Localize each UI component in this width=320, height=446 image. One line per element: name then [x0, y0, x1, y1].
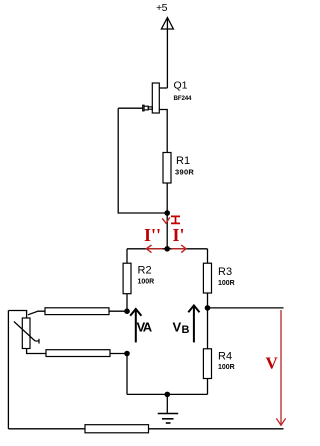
- trimmer wiper arrow: [14, 322, 39, 344]
- svg-text:R2: R2: [138, 265, 152, 277]
- svg-text:R3: R3: [218, 266, 232, 278]
- svg-text:+5: +5: [156, 2, 168, 14]
- wire: trimmer bottom to gauge2: [27, 349, 46, 354]
- wire: power to drain: [166, 18, 168, 88]
- node VB: [205, 305, 211, 311]
- wire: ground rail horizontal: [127, 393, 208, 395]
- svg-text:390R: 390R: [175, 167, 194, 176]
- node bridge top junction: [164, 246, 170, 252]
- node junction (gate feedback tap): [164, 210, 170, 216]
- wire: left rail: [7, 311, 9, 429]
- resistor R3: [203, 263, 211, 293]
- wire: left rail top: [8, 311, 26, 319]
- svg-text:100R: 100R: [218, 364, 235, 371]
- svg-text:V: V: [173, 320, 182, 335]
- wire: bottom node down to ground rail: [126, 354, 128, 395]
- wire: top rail to R3: [207, 249, 209, 263]
- arrow VA: [130, 309, 141, 342]
- wire: R1 bottom to bridge top: [166, 183, 168, 249]
- strain gauge (bottom): [46, 350, 110, 357]
- node gauge bottom: [124, 351, 130, 357]
- voltage arrow V (red): [276, 310, 285, 425]
- arrow VB: [188, 305, 199, 342]
- wire: feedback to gate: [118, 108, 167, 213]
- ground: [158, 394, 179, 423]
- svg-text:R1: R1: [176, 155, 190, 167]
- wire: source stub down to R1: [159, 110, 167, 153]
- wire: VB node to R4: [207, 308, 209, 349]
- wire: gauge to trimmer top (slant): [28, 311, 45, 315]
- svg-text:R4: R4: [218, 351, 232, 363]
- wire: R3 bottom to VB node: [207, 293, 209, 308]
- wire: VA node to gauge: [109, 310, 127, 312]
- wire: drain stub: [159, 87, 167, 89]
- transistor Q1 gate arrow: [143, 105, 153, 111]
- bottom resistor (gauge lead): [85, 425, 149, 433]
- wire: top rail to R2: [126, 249, 128, 263]
- svg-text:100R: 100R: [138, 279, 155, 286]
- resistor R4: [203, 349, 211, 379]
- svg-text:V: V: [266, 354, 279, 373]
- svg-text:Q1: Q1: [174, 80, 188, 92]
- svg-text:I'': I'': [144, 225, 161, 245]
- svg-text:B: B: [182, 324, 190, 336]
- trimmer resistor: [22, 318, 30, 349]
- wire: gauge2 to bottom node: [110, 353, 127, 355]
- power arrow symbol: [161, 18, 173, 30]
- wire: bridge top rail: [127, 248, 208, 250]
- transistor Q1 channel bar: [152, 83, 159, 113]
- resistor R2: [123, 263, 131, 294]
- wire: gate wire: [118, 107, 143, 109]
- wire: bottom rail: [8, 428, 283, 430]
- node VA: [124, 308, 130, 314]
- wire: VB node to right (V+ sense): [208, 307, 284, 309]
- label I (red): [171, 216, 180, 223]
- current arrow I (red chevron): [162, 217, 170, 223]
- svg-text:BF244: BF244: [174, 95, 193, 102]
- wire: R2 bottom to VA node: [126, 294, 128, 312]
- strain gauge (top): [45, 308, 109, 315]
- wire: R4 bottom to ground rail: [207, 379, 209, 395]
- svg-text:100R: 100R: [218, 280, 235, 287]
- current arrow I' (red, right): [172, 245, 187, 253]
- svg-text:I': I': [173, 225, 185, 245]
- node ground junction: [165, 392, 171, 398]
- svg-text:VA: VA: [137, 320, 153, 335]
- resistor R1: [163, 153, 171, 184]
- current arrow I'' (red, left): [146, 245, 162, 253]
